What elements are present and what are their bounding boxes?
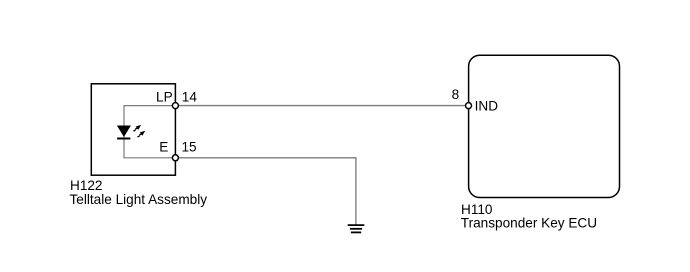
svg-text:Transponder Key ECU: Transponder Key ECU: [461, 215, 597, 230]
svg-text:IND: IND: [475, 98, 499, 113]
svg-text:15: 15: [182, 140, 197, 155]
transponder key ECU box H110: [469, 55, 620, 197]
svg-text:Telltale Light Assembly: Telltale Light Assembly: [70, 192, 208, 207]
wire E(15) to ground: [175, 158, 356, 225]
inner lamp loop wire: [124, 106, 175, 158]
ground: [348, 225, 365, 232]
svg-text:8: 8: [452, 87, 460, 102]
light emission arrow 2: [138, 131, 146, 137]
pin IND (8): [466, 103, 472, 109]
svg-text:LP: LP: [156, 90, 173, 105]
svg-text:14: 14: [182, 90, 198, 105]
light emission arrow 1: [133, 125, 141, 131]
pin LP (14): [172, 103, 178, 109]
wire LP(14) to IND(8): [175, 105, 468, 107]
pin E (15): [172, 155, 178, 161]
svg-text:E: E: [159, 139, 168, 154]
telltale light assembly box H122: [91, 84, 175, 175]
LED (telltale lamp): [117, 126, 131, 139]
